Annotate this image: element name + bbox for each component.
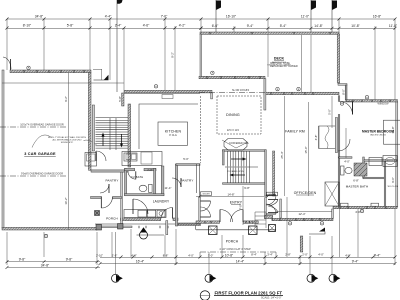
- svg-text:SIDING ETC: SIDING ETC: [61, 142, 74, 144]
- svg-text:8'-4": 8'-4": [251, 253, 257, 257]
- svg-text:4'-0": 4'-0": [188, 253, 194, 257]
- svg-text:FIRST FLOOR PLAN 2261 SQ FT: FIRST FLOOR PLAN 2261 SQ FT: [215, 290, 283, 295]
- svg-text:9' CLG: 9' CLG: [169, 134, 177, 137]
- svg-text:4'-0": 4'-0": [344, 160, 350, 164]
- svg-text:9'-8": 9'-8": [19, 258, 26, 262]
- svg-text:11'-4": 11'-4": [165, 186, 172, 190]
- svg-text:16'-4": 16'-4": [136, 260, 145, 264]
- svg-text:6'-6": 6'-6": [212, 24, 219, 28]
- svg-text:DECK: DECK: [274, 57, 285, 61]
- svg-text:22'0 X 11'0: 22'0 X 11'0: [227, 129, 240, 132]
- svg-text:3 CAR GARAGE: 3 CAR GARAGE: [24, 152, 56, 156]
- svg-text:SCALE: 1/4"=1'-0": SCALE: 1/4"=1'-0": [261, 297, 282, 300]
- svg-text:4'-8": 4'-8": [131, 253, 137, 257]
- svg-text:FAMILY RM: FAMILY RM: [285, 130, 305, 134]
- svg-text:4'-0": 4'-0": [355, 210, 361, 214]
- svg-text:LAUNDRY: LAUNDRY: [153, 200, 170, 204]
- svg-text:COFFERED CEIL: COFFERED CEIL: [229, 142, 250, 145]
- svg-text:2'-0": 2'-0": [302, 253, 308, 257]
- svg-text:2'8 CASED OPEN: 2'8 CASED OPEN: [227, 170, 244, 173]
- svg-text:9'-4": 9'-4": [352, 260, 359, 264]
- svg-text:10'-8": 10'-8": [351, 24, 360, 28]
- svg-text:DINING: DINING: [226, 113, 240, 117]
- svg-text:9'-4": 9'-4": [247, 24, 254, 28]
- svg-text:7'-0": 7'-0": [239, 204, 243, 210]
- svg-text:ENTRY: ENTRY: [230, 201, 243, 205]
- svg-text:OFFICE/DEN: OFFICE/DEN: [294, 191, 317, 195]
- svg-text:14'-8": 14'-8": [391, 126, 395, 133]
- svg-text:9'0x8'0 OVERHEAD GARAGE DOOR: 9'0x8'0 OVERHEAD GARAGE DOOR: [21, 173, 63, 176]
- svg-text:4'-2": 4'-2": [179, 24, 186, 28]
- svg-text:9'-4": 9'-4": [374, 253, 381, 257]
- svg-text:14'-8": 14'-8": [314, 24, 323, 28]
- svg-text:9'-8": 9'-8": [244, 186, 250, 190]
- svg-text:KITCHEN: KITCHEN: [165, 130, 182, 134]
- svg-text:5'-4": 5'-4": [280, 24, 287, 28]
- svg-text:8'-8": 8'-8": [163, 253, 169, 257]
- svg-text:2'-8": 2'-8": [112, 253, 118, 257]
- svg-text:12'-4": 12'-4": [298, 212, 305, 216]
- svg-text:16'-10": 16'-10": [226, 15, 237, 19]
- svg-text:EXTENDED BY OWNER: EXTENDED BY OWNER: [267, 64, 291, 66]
- svg-text:34'-8": 34'-8": [35, 15, 44, 19]
- svg-text:WI CLOS: WI CLOS: [387, 161, 398, 163]
- svg-text:9'-8": 9'-8": [66, 258, 73, 262]
- svg-text:2'-8": 2'-8": [285, 253, 291, 257]
- svg-text:5'-0": 5'-0": [183, 157, 189, 161]
- svg-text:PORCH: PORCH: [226, 240, 239, 244]
- svg-text:PANTRY: PANTRY: [105, 179, 118, 183]
- svg-text:11'-0": 11'-0": [301, 15, 310, 19]
- svg-text:PORCH: PORCH: [106, 217, 118, 221]
- svg-text:11'-8": 11'-8": [389, 24, 398, 28]
- svg-text:8'-0": 8'-0": [342, 89, 346, 95]
- svg-text:2'-8": 2'-8": [147, 168, 153, 172]
- svg-text:7'-6": 7'-6": [161, 15, 168, 19]
- svg-text:2'-4": 2'-4": [115, 24, 122, 28]
- svg-text:25'-4": 25'-4": [280, 151, 284, 158]
- svg-text:14'-8": 14'-8": [227, 192, 234, 196]
- svg-text:3'-0": 3'-0": [208, 253, 214, 257]
- svg-text:6'-8": 6'-8": [314, 135, 318, 141]
- svg-text:3'-4": 3'-4": [267, 253, 273, 257]
- svg-text:PANTRY: PANTRY: [180, 179, 193, 183]
- svg-text:SL DR 16'0x8'0: SL DR 16'0x8'0: [232, 89, 250, 92]
- svg-text:5'-8": 5'-8": [67, 24, 74, 28]
- svg-text:8'-10": 8'-10": [23, 24, 32, 28]
- svg-text:9'-2": 9'-2": [171, 52, 175, 58]
- svg-text:16'-2": 16'-2": [64, 197, 68, 204]
- svg-text:5'-8": 5'-8": [118, 96, 122, 102]
- svg-text:3050SH: 3050SH: [202, 194, 210, 196]
- svg-text:2'-10": 2'-10": [96, 253, 103, 257]
- svg-text:6'-8": 6'-8": [353, 179, 359, 183]
- svg-text:MASTER BEDROOM: MASTER BEDROOM: [362, 130, 394, 134]
- svg-text:5'-0": 5'-0": [328, 109, 332, 115]
- svg-text:4 1/2" CONC FLAT 4" STEP: 4 1/2" CONC FLAT 4" STEP: [219, 248, 251, 251]
- svg-text:4'-6": 4'-6": [143, 24, 150, 28]
- svg-text:MASTER BATH: MASTER BATH: [346, 185, 369, 189]
- svg-text:34'-8": 34'-8": [41, 263, 50, 267]
- svg-text:15'-0": 15'-0": [304, 146, 308, 153]
- svg-text:WINDOW: WINDOW: [378, 103, 390, 106]
- svg-text:VAULTED CEILING: VAULTED CEILING: [370, 133, 386, 136]
- svg-text:9'-2": 9'-2": [64, 96, 68, 102]
- svg-text:10'0x7'4 OVERHEAD GARAGE DOOR: 10'0x7'4 OVERHEAD GARAGE DOOR: [20, 124, 64, 127]
- svg-text:4'-0": 4'-0": [318, 253, 324, 257]
- svg-text:9'-0": 9'-0": [391, 177, 395, 183]
- svg-text:10'-8": 10'-8": [225, 253, 234, 257]
- svg-text:WI CLOS: WI CLOS: [388, 186, 399, 188]
- svg-text:14'-4": 14'-4": [236, 260, 245, 264]
- svg-text:16'-8": 16'-8": [373, 15, 382, 19]
